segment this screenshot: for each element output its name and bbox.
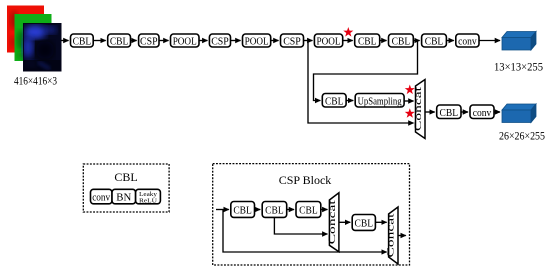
block POOL2 [243,34,271,47]
wire POOL3-CBL3 [343,40,353,42]
wire csp output [398,235,406,237]
svg-text:416×416×3: 416×416×3 [14,74,57,88]
svg-text:Concat: Concat [414,86,424,131]
wire branch CBL4 out down-left to CBL6 [314,41,418,101]
legend BN box [112,189,136,204]
wire CSP1-POOL1 [159,40,169,42]
svg-text:ReLU: ReLU [139,198,158,204]
svg-text:CSP: CSP [140,35,158,47]
block csp CBL2 [262,202,287,218]
wire CBL7-conv2 [461,111,468,113]
block CBL7 [437,105,461,119]
svg-text:Concat: Concat [387,213,397,258]
wire csp CBL4-Concat2 [375,221,386,223]
svg-text:CSP: CSP [211,35,229,47]
block csp CBL4 [352,215,375,231]
wire CBL6-UpSampling [346,100,353,102]
block CBL4 [389,34,414,47]
svg-text:CBL: CBL [440,107,459,119]
wire csp CBL1-CBL2 [255,209,261,211]
block CBL2 [108,34,131,47]
wire CSP2-POOL2 [231,40,241,42]
svg-text:CSP: CSP [283,35,301,47]
wire POOL1-CSP2 [199,40,207,42]
output tensor 13x13x255 [502,32,536,51]
block POOL1 [171,34,200,47]
csp concat2 [387,207,399,264]
wire csp input rail to Concat2 [223,210,387,253]
svg-text:CBL: CBL [299,205,318,217]
block UpSampling [355,94,404,108]
svg-text:CBL: CBL [358,35,377,47]
legend conv box [91,189,113,204]
block CBL5 [422,34,447,47]
wire Concat-CBL7 [425,111,435,113]
block CSP3 [281,34,304,47]
block csp CBL3 [296,202,321,218]
svg-text:CBL: CBL [392,35,411,47]
svg-text:CBL: CBL [110,35,129,47]
wire CBL1-CBL2 [93,40,106,42]
svg-text:conv: conv [458,35,477,47]
block CBL3 [355,34,380,47]
star marker 2 [405,85,415,95]
wire CSP3-POOL3 with junction [304,40,313,42]
input image red channel [7,6,44,53]
wire branch CSP3 down to concat bottom [308,41,414,124]
star marker 3 [405,108,415,118]
wire CBL2-CSP1 [131,40,137,42]
block POOL3 [314,34,342,47]
wire CBL5-conv1 [446,40,453,42]
input image blue channel photo [23,24,62,72]
block CBL1 [71,34,94,47]
block csp CBL1 [231,202,255,218]
svg-text:CBL: CBL [325,95,344,107]
svg-text:conv: conv [473,107,492,119]
svg-text:POOL: POOL [317,35,341,47]
output tensor 26x26x255 [502,104,536,123]
svg-text:13×13×255: 13×13×255 [494,60,543,74]
wire conv1-output1 [479,40,500,42]
wire conv2-output2 [494,111,500,113]
svg-text:CSP Block: CSP Block [279,173,332,187]
svg-text:UpSampling: UpSampling [358,95,402,107]
input image green channel [15,14,52,61]
wire csp CBL3-Concat1 [321,209,328,211]
svg-text:CBL: CBL [233,205,252,217]
svg-text:CBL: CBL [355,218,374,230]
svg-text:POOL: POOL [173,35,197,47]
svg-text:26×26×255: 26×26×255 [499,129,545,143]
wire csp input [216,209,229,211]
csp concat1 [328,193,339,252]
wire CBL3-CBL4 [380,40,387,42]
svg-text:BN: BN [116,193,131,204]
svg-text:CBL: CBL [114,170,137,184]
wire csp CBL2-CBL3 [287,209,294,211]
svg-text:conv: conv [92,193,111,204]
svg-text:Leaky: Leaky [139,192,157,198]
block conv1 [456,34,479,47]
wire input to CBL1 [61,40,69,42]
svg-text:CBL: CBL [265,205,284,217]
wire csp CBL2 down to Concat1 [274,217,327,234]
star marker 1 [343,27,353,37]
block CSP1 [139,34,159,47]
svg-text:Concat: Concat [328,200,338,245]
legend LeakyReLU box [136,189,161,204]
wire CBL4-CBL5 with junction [413,40,419,42]
block CBL6 [322,94,346,108]
wire UpSampling-Concat [404,100,413,102]
block CSP2 [209,34,230,47]
block conv2 [470,105,494,119]
svg-text:POOL: POOL [245,35,269,47]
svg-text:CBL: CBL [73,35,92,47]
legend CBL dashed box [83,164,169,212]
wire csp Concat1-CBL4 [339,221,350,223]
concat main [414,80,425,139]
wire POOL2-CSP3 [271,40,279,42]
svg-text:CBL: CBL [425,35,444,47]
legend CSP dashed box [213,164,410,265]
